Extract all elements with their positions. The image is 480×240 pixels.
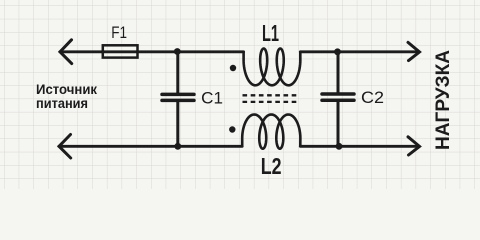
svg-text:F1: F1 (111, 23, 127, 42)
arrow input bottom (59, 135, 71, 159)
svg-text:C1: C1 (201, 90, 223, 108)
svg-text:L1: L1 (262, 20, 279, 46)
node bottom C1 junction (174, 143, 181, 150)
node bottom C2 junction (336, 143, 343, 150)
arrow input top (60, 40, 72, 64)
polarity dot L1 (230, 65, 236, 71)
arrow output bottom (408, 137, 420, 155)
svg-text:L2: L2 (261, 153, 282, 179)
svg-text:НАГРУЗКА: НАГРУЗКА (432, 50, 454, 150)
node top C1 junction (174, 48, 181, 55)
wire top rail right (L1 to arrow) (300, 50, 419, 53)
node top C2 junction (334, 48, 341, 55)
svg-text:питания: питания (36, 96, 88, 111)
svg-text:C2: C2 (361, 89, 384, 107)
transformer core (243, 95, 300, 102)
wire top rail left (arrow to fuse) (60, 50, 103, 53)
wire top rail middle (fuse to L1) (138, 50, 244, 53)
svg-text:Источник: Источник (36, 82, 97, 97)
wire bottom rail left (arrow to C1) (59, 145, 178, 148)
wire bottom rail right (L2 to arrow) (300, 145, 419, 148)
wire bottom rail middle (C1 to L2) (178, 145, 242, 148)
arrow output top (408, 42, 420, 60)
polarity dot L2 (229, 126, 235, 132)
capacitor C2 (322, 52, 354, 147)
fuse F1 (103, 45, 138, 57)
inductor L2 (242, 115, 300, 149)
inductor L1 (244, 49, 301, 86)
capacitor C1 (162, 52, 194, 147)
